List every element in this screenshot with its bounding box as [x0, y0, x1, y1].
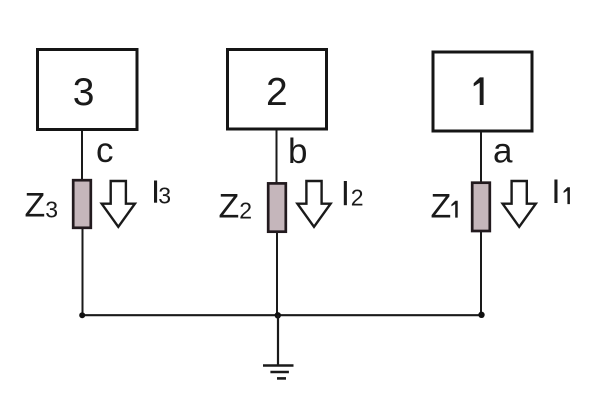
- svg-text:3: 3: [158, 182, 171, 208]
- svg-text:c: c: [96, 131, 114, 170]
- svg-text:3: 3: [73, 71, 95, 114]
- svg-text:Z2: Z2: [219, 188, 253, 226]
- svg-text:Z3: Z3: [25, 187, 59, 225]
- svg-text:Z: Z: [431, 188, 452, 226]
- svg-text:b: b: [288, 132, 307, 171]
- svg-text:a: a: [493, 132, 513, 171]
- svg-text:2: 2: [266, 71, 288, 114]
- svg-text:2: 2: [351, 185, 364, 211]
